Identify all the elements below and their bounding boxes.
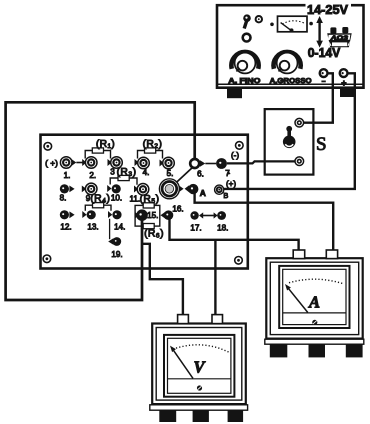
svg-text:10.: 10. (111, 194, 122, 203)
wire branch to V meter right terminal (214, 240, 216, 317)
PSU meter right screw (309, 22, 313, 26)
PSU enclosure (217, 5, 364, 88)
S toggle body (283, 136, 296, 149)
PSU panel bottom line (218, 83, 363, 85)
resistor R4 bracket (82, 203, 112, 218)
terminal 13 (87, 210, 96, 219)
svg-text:A: A (308, 293, 320, 312)
svg-text:3: 3 (110, 168, 115, 177)
svg-text:5.: 5. (167, 169, 174, 178)
terminal 14 (112, 210, 121, 219)
V meter screw (197, 385, 202, 390)
knob A.FINO (231, 52, 258, 73)
V meter middle foot (193, 410, 209, 422)
terminal 10 (112, 184, 121, 193)
lamp bulb (159, 179, 189, 199)
V meter left foot (159, 410, 176, 422)
svg-text:(R₄): (R₄) (90, 194, 110, 205)
svg-text:0-14V: 0-14V (308, 46, 341, 60)
terminal B (215, 185, 224, 194)
PSU minus terminal (320, 69, 328, 77)
PSU panel meter (278, 16, 308, 32)
PSU fuse button (256, 16, 262, 22)
board screw bottom-right (235, 257, 243, 265)
terminal 2 (85, 157, 97, 169)
switch box S (265, 109, 327, 175)
svg-text:12.: 12. (60, 222, 71, 231)
svg-text:S: S (316, 134, 327, 155)
terminal 16 (164, 210, 174, 220)
svg-text:8.: 8. (60, 194, 67, 203)
resistor R2 bracket (135, 148, 164, 167)
terminal 19 (108, 237, 121, 246)
wire PSU plus down right side to terminal B (224, 73, 355, 189)
V meter left terminal block (178, 315, 189, 324)
svg-text:6.: 6. (197, 169, 204, 178)
terminal 12 (60, 210, 75, 219)
svg-text:(R₃): (R₃) (117, 167, 137, 178)
terminal 17 (190, 211, 198, 219)
svg-text:2.: 2. (89, 171, 96, 180)
svg-text:7: 7 (225, 169, 230, 178)
svg-text:1.: 1. (64, 171, 71, 180)
svg-text:15.: 15. (147, 211, 158, 220)
svg-text:18.: 18. (217, 223, 228, 232)
wire PSU minus to switch S (304, 73, 333, 122)
svg-text:9: 9 (86, 194, 91, 203)
resistor R3 bracket (107, 175, 138, 192)
svg-text:( +): ( +) (45, 158, 58, 168)
S toggle lever (286, 126, 292, 132)
A meter left terminal block (293, 250, 305, 259)
A meter left foot (270, 344, 288, 357)
terminal 4 (138, 157, 150, 169)
svg-text:17.: 17. (190, 223, 201, 232)
A meter scale arc (289, 279, 344, 284)
svg-text:(R₂): (R₂) (143, 139, 163, 150)
svg-text:4.: 4. (143, 168, 150, 177)
terminal 8 (60, 184, 75, 193)
V meter right terminal block (212, 315, 223, 324)
PSU left foot (227, 89, 242, 99)
terminal 5 (163, 157, 175, 169)
label minus (321, 80, 325, 82)
terminal 3 (111, 157, 123, 169)
resistor R5 R6 bracket loop (135, 203, 166, 229)
svg-text:(R₁): (R₁) (96, 139, 115, 150)
PSU power toggle switch (243, 14, 251, 28)
knob A.GROSSO (273, 52, 300, 73)
svg-text:A.GROSSO: A.GROSSO (270, 76, 312, 85)
terminal 6 (190, 159, 205, 168)
wire terminal A to A meter right terminal (195, 193, 334, 251)
V meter case (152, 324, 246, 405)
label 14-25V (306, 2, 352, 14)
wire terminal 6 to 7 (205, 163, 216, 165)
terminal 18 (217, 211, 226, 220)
diagonal wire terminal 6 to lamp (176, 167, 194, 183)
wire terminal 1 to 2 (76, 162, 86, 164)
S top terminal (295, 118, 304, 127)
svg-text:B: B (223, 191, 228, 200)
V meter base strip (150, 405, 248, 410)
terminal 9 (82, 183, 97, 195)
A meter face (279, 266, 349, 328)
clip mark below terminal 7 (226, 170, 230, 175)
board screw top-left (44, 143, 52, 151)
svg-text:A: A (200, 188, 206, 198)
svg-text:A. FINO: A. FINO (228, 76, 260, 85)
outer loop wire terminal 15 to terminal 6 (6, 102, 195, 300)
range double arrow (316, 16, 323, 48)
A meter (265, 250, 364, 357)
resistor R1 bracket (82, 148, 112, 166)
V meter right foot (228, 410, 244, 422)
svg-text:14-25V: 14-25V (307, 3, 349, 17)
PSU pilot lamp (243, 34, 251, 42)
svg-text:13.: 13. (87, 222, 98, 231)
board screw top-right (236, 142, 244, 150)
V meter (150, 315, 248, 422)
terminal 15 (136, 209, 148, 221)
terminal 11 (137, 184, 149, 196)
svg-text:16.: 16. (172, 205, 183, 214)
A meter case (266, 258, 362, 338)
voltage regulator component (327, 27, 352, 47)
A meter base strip (265, 339, 364, 344)
power supply unit (217, 2, 364, 98)
S bottom terminal (295, 157, 304, 166)
wire terminal 16 to A meter left terminal (170, 219, 299, 252)
svg-text:(-): (-) (231, 151, 239, 160)
wire terminal 7 to switch S bottom (227, 161, 295, 163)
terminal A (188, 184, 198, 194)
V meter scale arc (176, 345, 231, 353)
svg-text:11.: 11. (129, 194, 140, 203)
terminal 7 (216, 158, 227, 169)
A meter screw (312, 320, 317, 325)
wire terminal 17 to 18 (199, 212, 218, 218)
A meter middle foot (309, 344, 326, 357)
A meter right foot (346, 344, 363, 357)
svg-text:(+): (+) (226, 180, 236, 189)
svg-text:ΛΩ3: ΛΩ3 (329, 36, 348, 42)
wire terminal 14 to 19 (109, 219, 111, 239)
svg-text:19.: 19. (111, 250, 122, 259)
svg-text:(R₆): (R₆) (144, 228, 164, 239)
wire R6 bottom to V meter left terminal (142, 244, 183, 317)
PSU plus terminal (340, 69, 348, 77)
breadboard panel (41, 135, 248, 269)
A meter right terminal block (326, 250, 337, 259)
PSU right foot (340, 89, 356, 97)
PSU meter left screw (270, 23, 274, 27)
A meter needle (288, 287, 308, 312)
V meter needle (173, 349, 194, 379)
svg-text:+: + (341, 78, 346, 88)
V meter face (164, 335, 234, 397)
svg-text:14.: 14. (114, 222, 125, 231)
terminal 1 (60, 157, 76, 169)
board screw bottom-left (43, 255, 51, 263)
